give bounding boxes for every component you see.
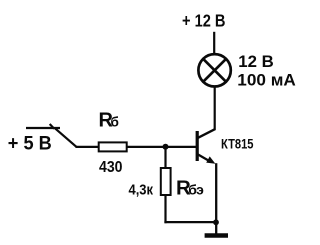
- svg-text:4,3к: 4,3к: [129, 181, 154, 198]
- wire base to node: [164, 146, 197, 148]
- svg-text:+ 12 В: + 12 В: [182, 11, 226, 31]
- wire to ground symbol: [215, 222, 217, 233]
- svg-text:КТ815: КТ815: [221, 137, 254, 152]
- resistor Rb body: [99, 142, 127, 151]
- wire +12V supply to lamp top: [213, 32, 215, 55]
- transistor VT1 base bar: [196, 131, 199, 161]
- wire Rbe bottom down: [164, 195, 166, 223]
- node junction dot at ground: [213, 219, 219, 225]
- resistor Rbe body: [161, 168, 171, 195]
- node junction dot at base divider: [163, 144, 169, 150]
- transistor VT1 emitter lead with arrow: [197, 154, 215, 164]
- ground symbol: [205, 233, 228, 238]
- lamp HL1: [198, 54, 230, 86]
- svg-text:12 В: 12 В: [238, 53, 274, 71]
- svg-text:430: 430: [99, 159, 123, 176]
- wire lamp bottom to collector: [214, 87, 216, 131]
- wire emitter down: [215, 163, 217, 222]
- svg-text:+ 5 В: + 5 В: [8, 133, 52, 155]
- wire Rb to base node: [127, 146, 166, 148]
- switch input contact: [26, 124, 77, 147]
- wire node to Rbe top: [164, 147, 166, 169]
- wire bottom rail to ground node: [164, 221, 216, 223]
- wire switch to Rb: [76, 146, 100, 148]
- svg-text:100 мА: 100 мА: [237, 71, 296, 89]
- transistor VT1 collector lead: [197, 129, 215, 138]
